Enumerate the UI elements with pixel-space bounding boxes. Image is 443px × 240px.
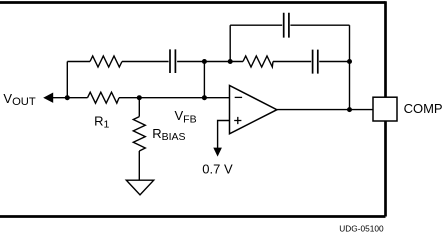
svg-text:UDG-05100: UDG-05100 <box>339 224 384 234</box>
IC boundary right edge lower <box>384 121 387 217</box>
node junction RBIAS tap <box>137 95 142 100</box>
resistor R1 <box>88 92 120 103</box>
resistor RBIAS <box>133 117 145 151</box>
0.7V arrow head <box>213 148 222 157</box>
wire: vertical from top branch to mid branch left <box>229 25 231 61</box>
capacitor C1 (top feedback) <box>284 13 289 38</box>
wire: vertical x=67.3 <box>66 62 68 98</box>
IC boundary top edge <box>0 1 386 4</box>
node junction right branch <box>347 59 352 64</box>
op-amp U1 <box>230 86 277 134</box>
node junction mid branch left <box>202 59 207 64</box>
capacitor (right feedback) <box>313 50 318 74</box>
svg-text:COMP: COMP <box>404 101 443 116</box>
wire: vertical x=204.4 to VFB node <box>203 62 205 98</box>
wire: mid branch y=61.5 <box>67 61 349 63</box>
resistor (upper-left feedback) <box>90 56 122 67</box>
node junction VFB <box>202 95 207 100</box>
wire: vertical right feedback x=349.5 <box>349 25 351 109</box>
node junction VOUT <box>65 95 70 100</box>
wire: top feedback branch <box>230 24 349 26</box>
node junction output <box>347 107 352 112</box>
wire: lower line VOUT to op-amp <box>53 97 230 99</box>
VOUT arrow <box>43 93 53 103</box>
resistor (right feedback) <box>243 56 273 67</box>
capacitor (left feedback) <box>170 49 175 73</box>
wire: RBIAS bottom stub <box>138 151 140 180</box>
wire: RBIAS top stub <box>138 98 140 117</box>
COMP pin box <box>373 97 397 121</box>
IC boundary bottom edge <box>0 215 386 218</box>
wire: non-inverting input to 0.7V <box>218 121 230 149</box>
node junction top branch tap <box>228 59 233 64</box>
svg-text:0.7 V: 0.7 V <box>202 161 233 176</box>
op-amp plus sign <box>234 117 241 124</box>
ground <box>126 180 153 195</box>
wire: op-amp output to COMP pin <box>277 109 373 111</box>
IC boundary right edge upper <box>384 1 387 97</box>
op-amp minus sign <box>235 96 242 98</box>
